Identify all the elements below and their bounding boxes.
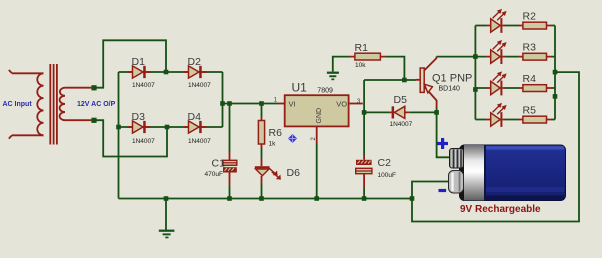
wire R6 top lead [261,104,263,118]
svg-text:VO: VO [336,100,347,109]
junction bridge DC output [220,101,225,106]
transformer secondary [60,88,92,121]
junction C1 tap [227,101,232,106]
diode D4 [184,111,212,145]
wire D5 right [410,111,437,113]
svg-text:R4: R4 [523,73,537,85]
battery terminal plus snap [450,149,464,169]
svg-text:C2: C2 [378,157,392,169]
junction D6 ground [259,196,264,201]
ground (main) [159,230,175,239]
svg-text:9V Rechargeable: 9V Rechargeable [460,204,541,215]
wire Q1 collector to battery plus [437,107,452,157]
junction C1 ground [227,196,232,201]
wire R1 right to base node [386,57,404,80]
svg-text:1N4007: 1N4007 [132,138,155,145]
junction R6 tap [259,101,264,106]
junction D3-D4 secondary bottom [165,125,170,130]
junction D3 anode left rail [116,125,121,130]
junction battery minus ground [410,196,415,201]
diode D5 [389,94,413,128]
wire D6 to ground rail [261,184,263,199]
svg-text:C1: C1 [212,158,226,170]
capacitor C2 [356,156,396,188]
svg-text:D6: D6 [287,167,301,179]
wire C2 bottom lead [363,188,365,199]
wire LED row R4 [475,87,555,89]
svg-text:12V AC O/P: 12V AC O/P [77,101,116,108]
wire LED row R5 [475,119,555,121]
svg-text:1N4007: 1N4007 [188,138,211,145]
diode D2 [184,56,212,89]
svg-text:D1: D1 [132,56,146,68]
svg-text:100uF: 100uF [378,172,396,179]
wire D3 row [119,126,223,128]
junction D5 Q1 collector battery plus [434,110,439,115]
wire C1 bottom lead [229,186,231,199]
diode D1 [128,56,156,89]
battery BT1 9V [437,138,565,215]
resistor R4 [519,73,552,92]
wire secondary-top to D1/D2 junction [97,40,167,87]
wire VO node vertical [363,80,365,156]
LED D6 [255,159,300,185]
junction ground tap [164,196,169,201]
svg-text:1k: 1k [269,141,277,148]
wire LED row R2 [475,25,555,27]
resistor R6 [258,117,282,148]
svg-text:BD140: BD140 [439,86,461,93]
terminal secondary bottom [91,118,96,123]
junction U1 GND ground [314,196,319,201]
resistor R1 [349,42,386,69]
junction D1-D2 secondary top [164,70,169,75]
wire R1 left to ground [333,57,349,72]
label plus [437,138,448,149]
svg-text:D2: D2 [188,56,202,68]
junction R1 to Q1 base [402,78,407,83]
junction C2 ground [362,196,367,201]
wire ground rail [119,198,413,200]
wire Q1 base [364,79,416,81]
svg-text:10k: 10k [355,62,366,69]
transformer core [50,64,57,145]
wire U1 GND pin down [316,144,318,199]
wire right bridge vertical [222,72,224,127]
LED row D-R3 [486,40,506,64]
wire secondary-bottom to D3/D4 junction [97,120,168,156]
capacitor C1 [205,152,237,187]
svg-text:D5: D5 [394,94,408,106]
regulator U1 7809 [274,81,363,144]
wire LED left rail [474,26,476,120]
battery terminal minus snap [449,171,464,194]
svg-text:R5: R5 [523,105,537,117]
svg-text:R3: R3 [523,42,537,54]
svg-text:D3: D3 [132,111,146,123]
junction right rail takeoff [553,70,558,75]
wire D5 left [364,111,389,113]
svg-text:R2: R2 [523,11,537,23]
svg-text:1N4007: 1N4007 [188,82,211,89]
svg-text:1N4007: 1N4007 [132,82,155,89]
LED row D-R5 [486,103,506,127]
junction emitter LED rail [473,54,478,59]
svg-text:Q1 PNP: Q1 PNP [432,72,472,84]
diode D3 [128,111,156,145]
junction VO D5 C2 node [362,110,367,115]
svg-text:D4: D4 [188,111,202,123]
origin marker [288,134,297,143]
wire R6 to D6 [261,148,263,159]
svg-text:AC Input: AC Input [3,101,33,108]
label minus [439,189,447,192]
ground (R1) [327,72,339,81]
wire ground tap [165,199,167,231]
wire Q1 emitter to LED rail [436,56,475,58]
wire takeoff to right edge [412,72,579,221]
wire C1 top lead [229,104,231,152]
wire DC node to U1 VI [223,103,279,105]
wire LED row R3 [475,56,555,58]
LED row D-R4 [486,71,506,95]
terminal secondary top [91,85,96,90]
wire left bridge vertical [118,72,120,199]
wire right resistor rail [554,26,556,120]
svg-text:U1: U1 [292,81,308,95]
svg-text:GND: GND [316,108,323,124]
transistor Q1 BD140 [416,57,472,108]
resistor R3 [519,42,552,61]
transformer TR primary [9,70,44,139]
wire D1 row [119,71,223,73]
resistor R5 [519,105,552,124]
junction LED rail R4 row [473,87,478,92]
svg-text:470uF: 470uF [205,171,223,178]
LED row D-R2 [486,9,506,33]
svg-text:R6: R6 [269,127,283,139]
resistor R2 [519,11,552,30]
svg-text:7809: 7809 [317,88,333,95]
svg-text:1N4007: 1N4007 [390,121,413,128]
junction right rail lower [553,94,558,99]
svg-text:VI: VI [289,100,296,109]
svg-text:R1: R1 [355,42,369,54]
